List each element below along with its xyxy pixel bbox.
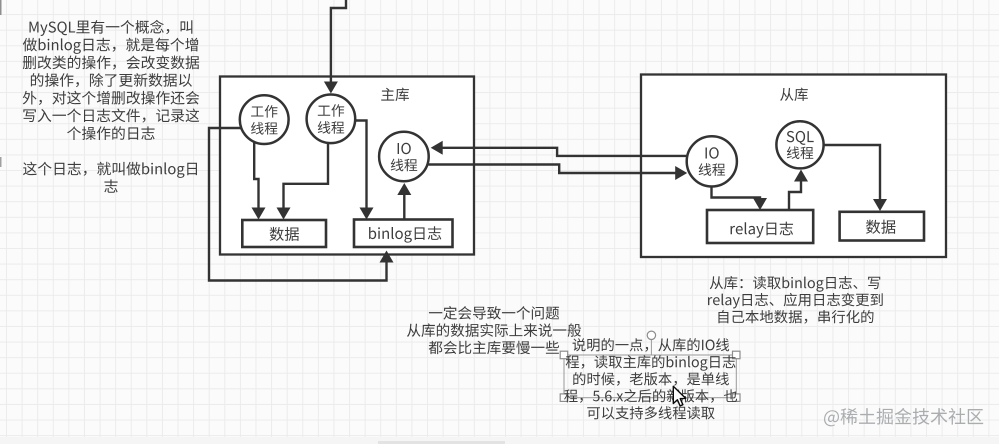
wire: worker thread 2 -> data store [277,143,329,220]
wire: binlog log -> master IO thread (upward arrow) [397,183,411,220]
note: slave replication steps (right) [708,276,883,324]
label: 主库 (master) [381,88,409,102]
rect: slave data store 数据 [840,212,924,241]
circle: slave IO thread IO线程 [687,136,737,186]
note: replication lag (bottom middle) [407,306,581,354]
wire: loop from worker thread 1 around outside back up into binlog (bottom) [209,128,394,281]
screen artifact: dark sliver top-left edge [0,0,2,167]
rect: relay log relay日志 [707,210,813,243]
circle: SQL thread SQL线程 [776,121,823,168]
box: master server 主库 [220,77,474,255]
circle: master IO thread IO线程 [379,132,429,182]
rect: master data store 数据 [242,220,326,247]
note: left explanation of binlog concept [23,20,199,193]
circle: worker thread 2 工作线程 [307,95,356,144]
wire: SQL thread -> slave data store [824,145,888,211]
watermark: @稀土掘金技术社区 [824,408,983,426]
note: selected text about IO thread single/multi thread [564,338,737,419]
wire: relay log -> SQL thread (upward arrow) [789,170,808,211]
wire: worker thread 1 -> data store [252,142,266,220]
rect: binlog log binlog日志 [354,220,453,248]
wire: worker thread 2 -> binlog log [355,121,373,220]
wire: master IO thread -> slave IO thread (send binlog, arrow right) [429,165,688,181]
label: 从库 (slave) [780,88,808,101]
box: slave server 从库 [641,75,946,258]
circle: worker thread 1 工作线程 [240,95,289,144]
mouse cursor pointer [673,386,685,406]
wire: slave IO thread -> relay log [712,187,768,211]
selection box with handles around selected text [560,331,740,401]
wire: incoming request from top into worker thread 2 [324,0,346,94]
wire: slave IO thread -> master IO thread (fetch binlog, arrow left) [431,141,688,156]
